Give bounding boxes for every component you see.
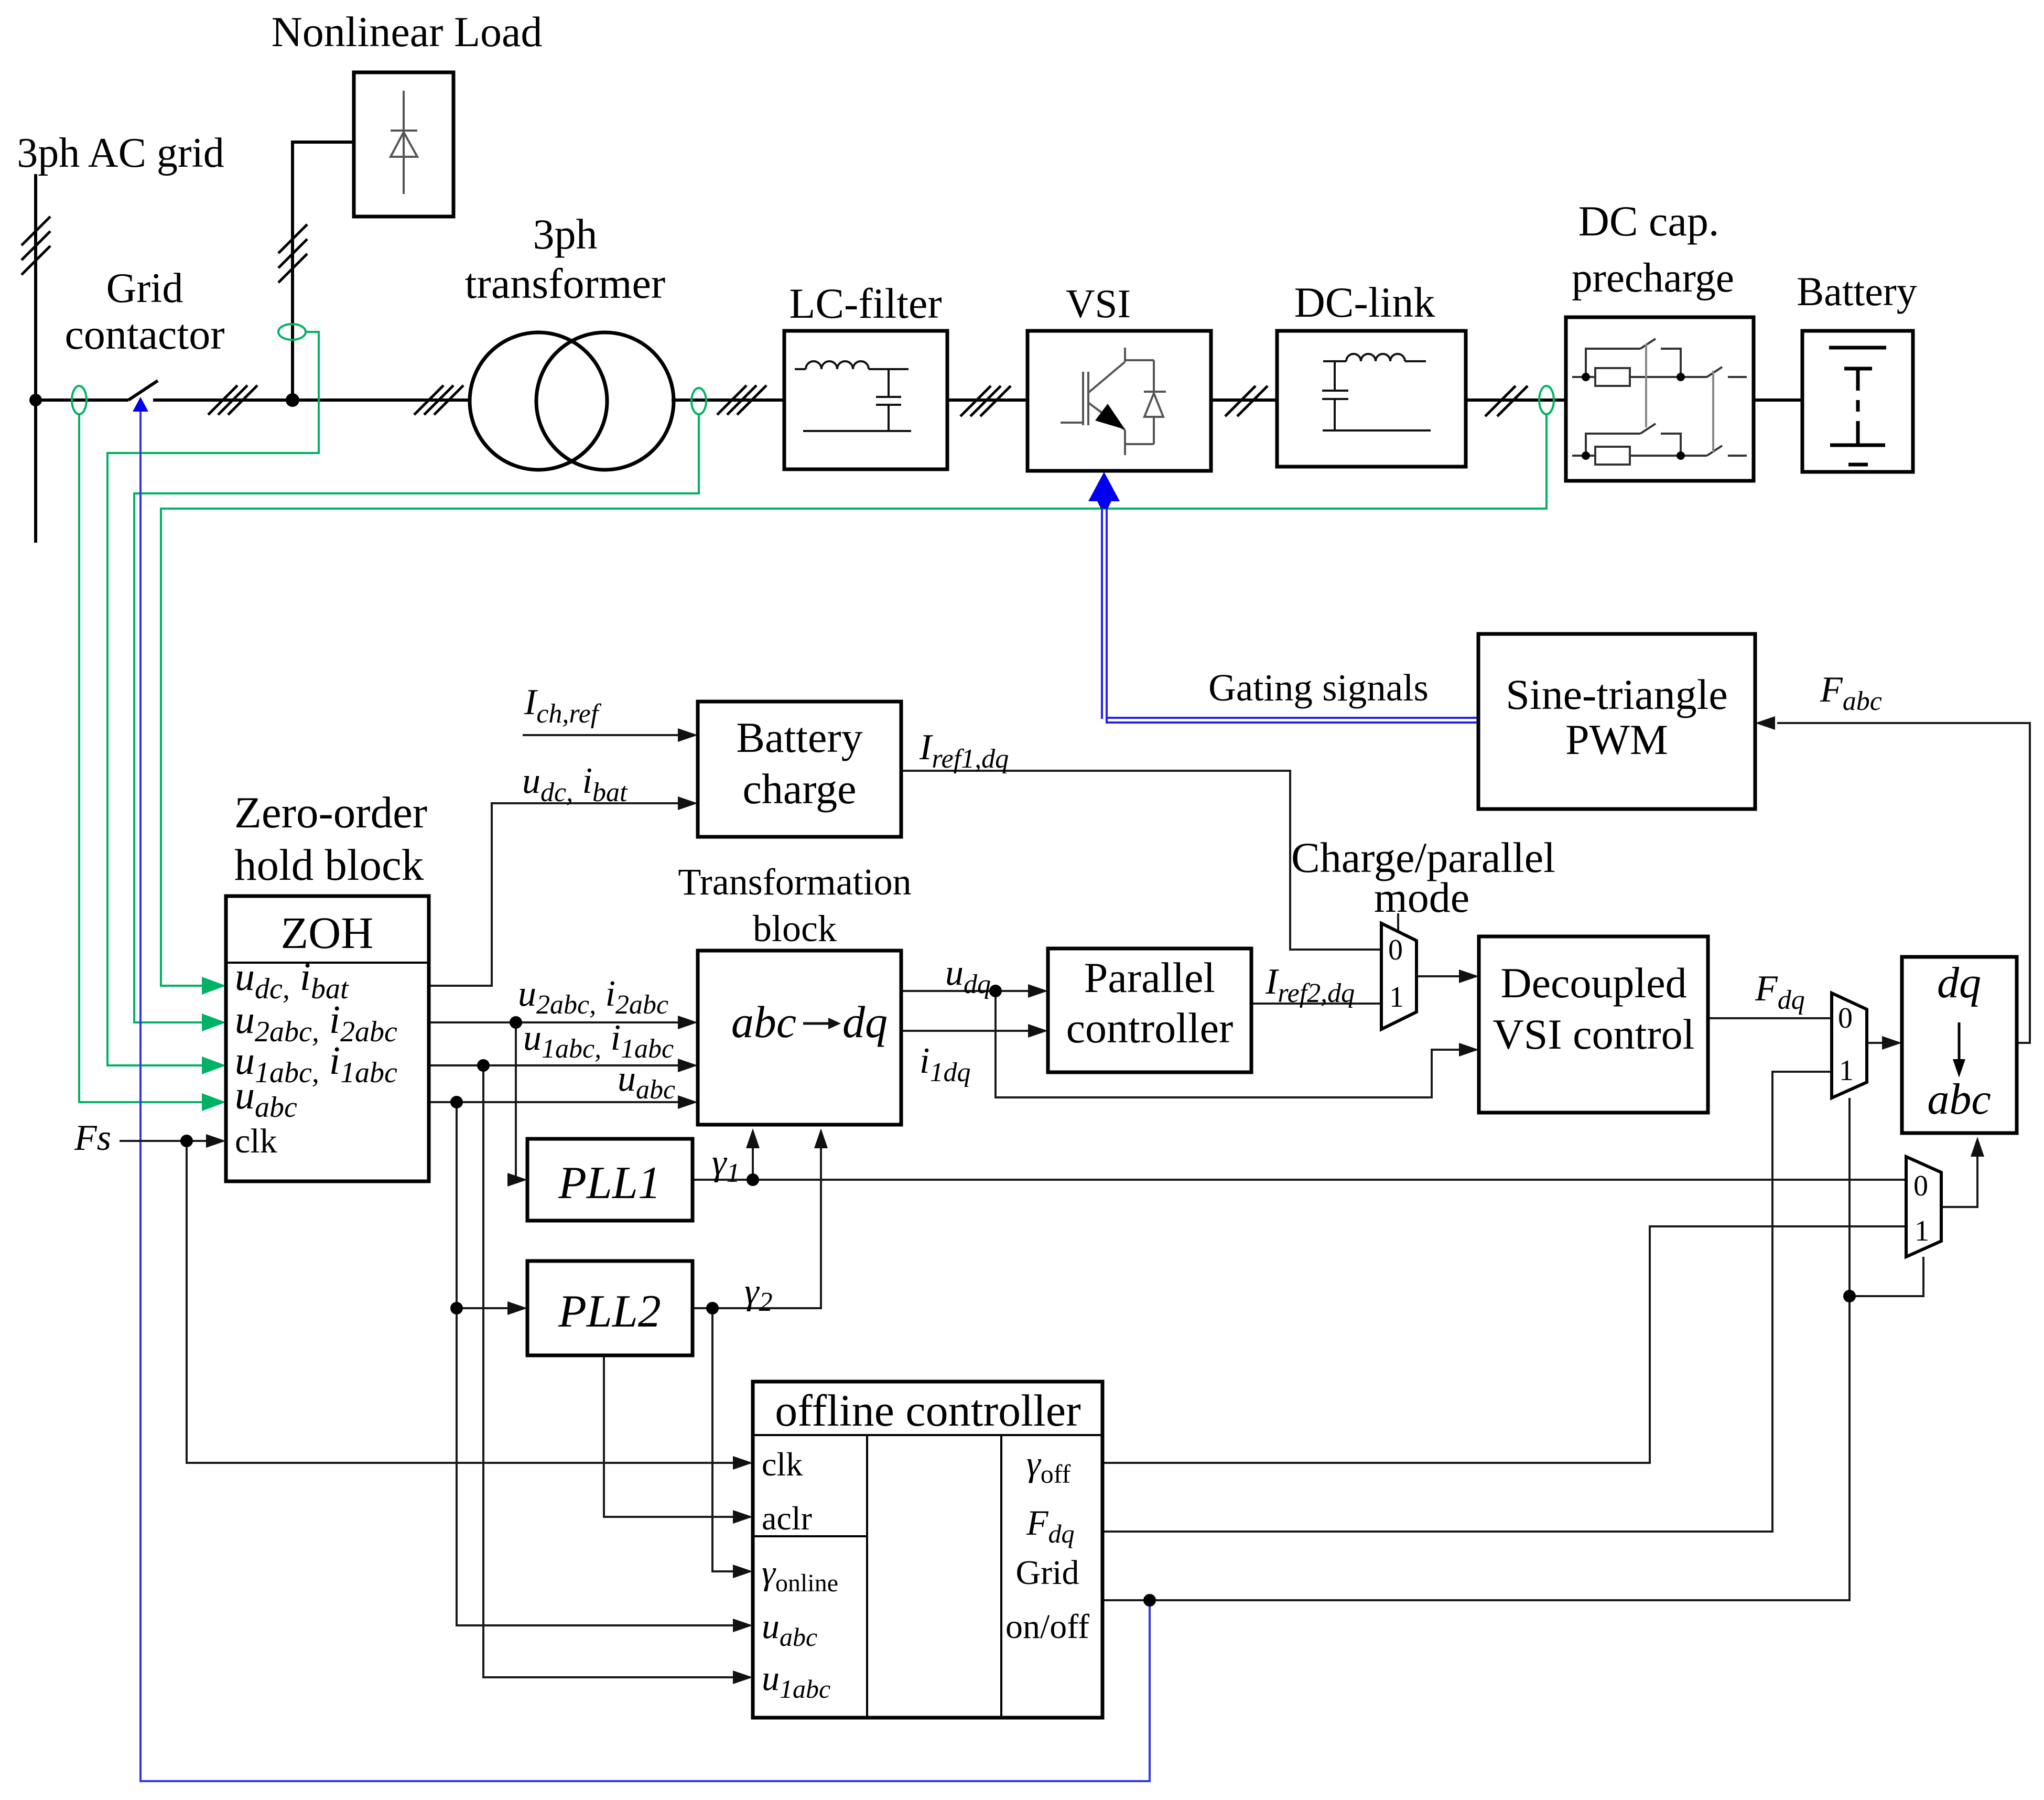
wire mux A output to Decoupled VSI control (1416, 975, 1460, 977)
wire mux B output to dq-abc (1867, 1042, 1883, 1044)
block VSI (1028, 331, 1211, 471)
wire gamma2 from PLL2 up into abc-dq (693, 1138, 821, 1308)
wire u_abc branch down to PLL2 and offline u_abc (457, 1102, 734, 1625)
arrowhead u_dc i_bat into Battery charge (678, 796, 698, 810)
wire I_ref2,dq from Parallel controller to mux A input 1 (1251, 1003, 1381, 1005)
junction dot u_abc to PLL2 (450, 1302, 463, 1314)
svg-text:Transformation: Transformation (678, 861, 911, 903)
svg-text:clk: clk (235, 1122, 277, 1160)
block Battery charge (698, 702, 901, 837)
svg-text:0: 0 (1838, 1002, 1853, 1034)
arrowhead u_abc into offline (733, 1619, 753, 1632)
block Battery (1802, 331, 1913, 472)
arrowhead u_dq into Decoupled (1459, 1043, 1479, 1057)
svg-text:Gating signals: Gating signals (1208, 666, 1429, 709)
svg-text:VSI control: VSI control (1493, 1010, 1695, 1058)
junction dot Fs/clk (180, 1135, 193, 1147)
block offline controller (753, 1382, 1102, 1718)
svg-text:0: 0 (1388, 934, 1403, 966)
diode inside Nonlinear Load (391, 91, 417, 194)
block ZOH (226, 896, 429, 1181)
svg-text:charge: charge (742, 765, 856, 813)
wire bus LC-filter to VSI (947, 398, 1028, 402)
arrowhead clk into offline (733, 1456, 753, 1470)
wire green u_dc i_bat sensor to ZOH (161, 414, 1546, 986)
wire bus transformer to LC-filter (672, 398, 784, 402)
wire green u_2abc sensor to ZOH (134, 414, 699, 1022)
wire gamma2 branch down to offline gamma online (712, 1308, 734, 1571)
block Nonlinear Load (354, 72, 453, 217)
svg-text:Battery: Battery (736, 714, 862, 761)
wire u_dq from abc-dq to Parallel controller (901, 990, 1029, 992)
svg-text:on/off: on/off (1005, 1608, 1089, 1646)
green arrowhead into ZOH u_1abc (202, 1057, 226, 1074)
mux C gamma switch (1906, 1157, 1941, 1257)
wire blue gating signals double line horizontal (1106, 717, 1478, 719)
wire Fs branch down to offline clk (187, 1141, 734, 1463)
wire ZOH u_2abc to abc-dq (429, 1021, 679, 1023)
arrowhead u_2abc into abc-dq (678, 1016, 698, 1029)
green arrowhead into ZOH u_abc (202, 1093, 226, 1111)
svg-text:offline controller: offline controller (775, 1385, 1080, 1436)
wire I_ref1,dq from Battery charge to mux A input 0 (901, 771, 1381, 950)
svg-text:0: 0 (1913, 1170, 1928, 1202)
wire bus precharge to battery (1754, 398, 1802, 402)
arrowhead gamma1 into abc-dq bottom (746, 1128, 760, 1148)
junction dot grid on/off at offline output (1143, 1594, 1156, 1607)
wire bus DC-link to precharge (1466, 398, 1566, 402)
svg-text:1: 1 (1915, 1215, 1929, 1247)
arrowhead mux C output into dq-abc bottom (1971, 1137, 1984, 1157)
wire u_dq branch to Decoupled VSI control lower input (996, 991, 1460, 1097)
svg-text:abc: abc (731, 997, 796, 1047)
wire charge/parallel mode select stub (1397, 913, 1399, 932)
wire u_1abc branch down to offline u_1abc (483, 1065, 734, 1677)
wire gamma1 from PLL1 to mux C input 0 (693, 1179, 1906, 1181)
offline controller title divider (753, 1434, 1102, 1436)
wire nonlinear load branch (293, 142, 354, 400)
svg-text:aclr: aclr (762, 1500, 812, 1537)
block LC-filter (784, 331, 947, 469)
junction dot u_1abc (477, 1059, 490, 1072)
svg-text:VSI: VSI (1066, 281, 1131, 326)
wire ZOH u_abc to abc-dq (429, 1101, 679, 1103)
junction node at grid line (29, 394, 42, 406)
sensor ellipse u_abc on bus (72, 386, 86, 414)
arrowhead u_1abc into offline (733, 1670, 753, 1684)
arrowhead Fs into ZOH clk (206, 1134, 226, 1148)
wire F_abc from dq-abc to PWM (1777, 723, 2030, 1043)
arrowhead u_dq into Parallel controller (1028, 984, 1048, 998)
inductor and capacitor inside DC-link (1322, 354, 1431, 430)
wire u_2abc branch down to PLL1 (510, 1022, 516, 1180)
block Decoupled VSI control (1479, 936, 1708, 1113)
svg-text:transformer: transformer (465, 260, 666, 307)
3-phase slash bus after contactor (208, 385, 257, 415)
junction node nonlinear load tap (286, 393, 299, 407)
svg-text:PLL2: PLL2 (558, 1286, 661, 1337)
arrowhead aclr into offline (733, 1510, 753, 1524)
junction dot grid on/off at mux selects (1843, 1290, 1856, 1302)
3-phase slash bus before transformer (414, 385, 463, 415)
arrowhead u_1abc into abc-dq (678, 1059, 698, 1072)
svg-text:Grid: Grid (106, 265, 183, 311)
2-line slash bus after DC-link (DC) (1485, 386, 1528, 416)
wire I_ch,ref into Battery charge (523, 734, 679, 736)
svg-text:Nonlinear Load: Nonlinear Load (272, 8, 543, 56)
block Sine-triangle PWM (1478, 634, 1755, 809)
IGBT emitter arrowhead (1095, 404, 1125, 429)
svg-text:DC-link: DC-link (1294, 278, 1435, 326)
IGBT and diode inside VSI (1061, 348, 1166, 455)
svg-text:dq: dq (1937, 958, 1981, 1007)
svg-text:3ph: 3ph (533, 210, 598, 258)
offline controller right column divider (1000, 1435, 1002, 1718)
junction dot u_2abc (510, 1016, 522, 1029)
green arrowhead into ZOH u_2abc (202, 1014, 226, 1031)
svg-text:PWM: PWM (1565, 716, 1668, 763)
blue arrowhead at grid contactor (133, 397, 148, 412)
svg-text:PLL1: PLL1 (558, 1158, 661, 1209)
svg-text:Battery: Battery (1797, 268, 1917, 314)
wire offline F_dq to mux B input 1 (1102, 1072, 1832, 1532)
svg-text:hold block: hold block (234, 840, 424, 890)
svg-text:Decoupled: Decoupled (1500, 959, 1686, 1007)
offline controller clk/aclr sub divider (753, 1535, 867, 1537)
svg-text:1: 1 (1839, 1054, 1854, 1087)
wire bus contactor to transformer (153, 398, 471, 402)
mux B Fdq switch (1832, 993, 1867, 1098)
junction dot u_dq (989, 985, 1002, 997)
wire i_1dq from abc-dq to Parallel controller (901, 1030, 1029, 1032)
wire gamma1 arrow up into abc-dq (752, 1138, 754, 1180)
svg-text:contactor: contactor (64, 310, 224, 358)
sensor ellipse u_dc i_bat at DC side (1539, 386, 1554, 414)
svg-text:precharge: precharge (1572, 255, 1734, 301)
svg-text:clk: clk (762, 1446, 803, 1483)
block dq-abc (1902, 957, 2017, 1133)
svg-text:controller: controller (1066, 1004, 1234, 1052)
svg-text:Parallel: Parallel (1084, 954, 1215, 1001)
block Parallel controller (1048, 948, 1251, 1072)
svg-text:block: block (753, 908, 837, 950)
svg-text:1: 1 (1389, 981, 1404, 1014)
mux A charge/parallel switch (1381, 923, 1416, 1029)
3-phase slash bus before VSI (960, 386, 1011, 416)
3-phase slash on NL branch vertical (278, 224, 307, 283)
blue arrowhead gating into VSI (1088, 472, 1120, 501)
2-line slash bus after VSI (DC) (1225, 386, 1268, 416)
wire offline gamma off to mux C input 1 (1102, 1226, 1906, 1463)
svg-text:Fs: Fs (74, 1118, 111, 1158)
svg-text:Sine-triangle: Sine-triangle (1506, 671, 1728, 718)
wire Fs to ZOH clk (120, 1140, 207, 1142)
arrowhead u_abc into abc-dq (678, 1095, 698, 1109)
junction dot u_abc (450, 1096, 463, 1108)
battery symbol inside Battery block (1829, 348, 1886, 465)
junction dot gamma2 (706, 1302, 719, 1314)
3-phase slash on grid vertical (21, 217, 50, 275)
block Transformation abc-dq (698, 951, 901, 1125)
arrowhead mux B output into dq-abc (1882, 1036, 1902, 1050)
green arrowhead into ZOH u_dc i_bat (202, 977, 226, 995)
arrowhead F_abc into PWM (1755, 716, 1775, 730)
arrowhead into PLL2 (507, 1301, 527, 1315)
arrowhead I_ch,ref into Battery charge (678, 728, 698, 742)
transformer T1 circles (470, 332, 607, 470)
grid contactor switch blade (128, 381, 158, 400)
arrowhead mux A output into Decoupled (1459, 969, 1479, 983)
inductor and capacitor inside LC-filter (795, 361, 911, 431)
ZOH title divider (226, 962, 429, 964)
wire ZOH u_dc i_bat to Battery charge (429, 803, 679, 986)
svg-text:Grid: Grid (1016, 1554, 1079, 1592)
precharge internal circuit (1572, 339, 1747, 465)
block DC-link (1277, 331, 1466, 467)
sensor ellipse u_2abc after transformer (691, 388, 706, 414)
wire u_abc spur into PLL2 (457, 1307, 509, 1309)
wire mux C output into dq-abc bottom (1941, 1140, 1977, 1207)
offline controller left column divider (866, 1435, 868, 1718)
wire PLL2 bottom to offline aclr (604, 1355, 734, 1517)
junction dot gamma1 (747, 1173, 759, 1186)
wire bus VSI to DC-link (1211, 398, 1277, 402)
svg-text:dq: dq (842, 997, 888, 1047)
svg-text:3ph AC grid: 3ph AC grid (17, 130, 224, 176)
wire ZOH u_1abc to abc-dq (429, 1064, 679, 1066)
wire green u_abc sensor to ZOH (79, 414, 220, 1102)
svg-text:abc: abc (1927, 1075, 1991, 1124)
wire main bus left segment (36, 398, 128, 402)
svg-text:ZOH: ZOH (281, 908, 374, 958)
svg-text:LC-filter: LC-filter (789, 279, 942, 327)
block DC cap. precharge (1566, 317, 1754, 481)
arrowhead i_1dq into Parallel controller (1028, 1024, 1048, 1038)
arrowhead gamma online into offline (733, 1565, 753, 1578)
wire blue gating signals double line vertical (1101, 502, 1103, 719)
svg-text:DC cap.: DC cap. (1578, 197, 1719, 245)
wire blue grid on/off to contactor (140, 411, 1150, 1781)
svg-text:Zero-order: Zero-order (234, 788, 427, 837)
block PLL2 (527, 1261, 693, 1355)
svg-text:mode: mode (1374, 874, 1469, 921)
arrowhead gamma2 into abc-dq bottom (814, 1128, 828, 1148)
wire grid on/off spur to mux C select (1850, 1257, 1923, 1296)
wire F_dq from Decoupled VSI control to mux B input 0 (1708, 1017, 1832, 1019)
sensor ellipse u_1abc on NL branch (278, 324, 306, 340)
wire offline grid on/off to mux B select (1102, 1098, 1850, 1600)
wire green u_1abc sensor to ZOH (107, 332, 319, 1065)
block PLL1 (527, 1139, 693, 1221)
3-phase slash bus before LC-filter (717, 385, 766, 415)
node grid feed vertical (3ph AC grid) (34, 174, 37, 543)
arrowhead into PLL1 (507, 1173, 527, 1187)
